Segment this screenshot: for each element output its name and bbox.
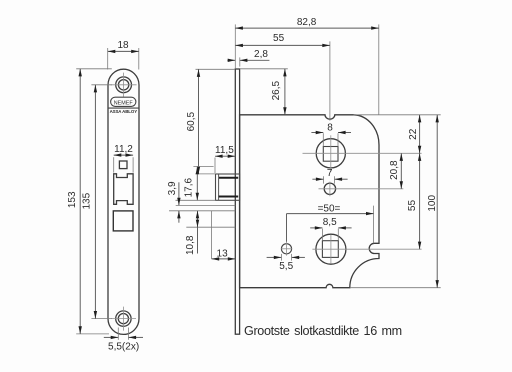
dim 3,9 (167, 181, 180, 223)
dim 5,5(2x) bottom (104, 328, 143, 353)
svg-text:3,9: 3,9 (167, 181, 178, 195)
svg-text:11,2: 11,2 (114, 144, 133, 155)
dim =50= (287, 204, 374, 244)
deadbolt slot side lines (169, 200, 235, 259)
small square hole (119, 161, 127, 169)
svg-text:8,5: 8,5 (323, 217, 337, 228)
svg-text:100: 100 (427, 195, 438, 212)
dim 10,8 (185, 211, 199, 255)
svg-text:60,5: 60,5 (186, 112, 197, 132)
svg-text:55: 55 (273, 33, 285, 44)
dim 82,8 (235, 17, 378, 115)
svg-text:55: 55 (407, 200, 418, 212)
svg-text:26,5: 26,5 (271, 81, 282, 101)
dim 26,5 (240, 69, 288, 115)
dim 135 left (81, 85, 112, 319)
svg-text:17,6: 17,6 (184, 178, 195, 198)
dim 17,6 (184, 167, 214, 201)
dim 20,8 (389, 153, 403, 189)
svg-text:22: 22 (408, 128, 419, 140)
latch side view (216, 174, 240, 200)
svg-text:Grootste slotkastdikte 16 mm: Grootste slotkastdikte 16 mm (244, 324, 402, 338)
svg-text:135: 135 (81, 192, 92, 209)
dim 7 (312, 168, 347, 184)
svg-text:5,5(2x): 5,5(2x) (108, 341, 139, 352)
dim 11,2 (114, 144, 134, 173)
latch cutout front view (114, 174, 133, 205)
dim 8,5 (310, 217, 351, 241)
svg-text:11,5: 11,5 (215, 145, 234, 156)
right side leaders (354, 114, 441, 116)
top screw hole (111, 73, 137, 97)
dim 8 (311, 122, 351, 146)
cylinder hole (312, 234, 421, 264)
dim 100 (427, 115, 439, 288)
NEMEF logo (108, 97, 139, 114)
svg-text:NEMEF: NEMEF (114, 100, 134, 106)
dim 2,8 (227, 49, 269, 67)
lock case outline (240, 115, 379, 288)
svg-text:82,8: 82,8 (297, 17, 317, 28)
svg-text:ASSA ABLOY: ASSA ABLOY (110, 109, 138, 114)
faceplate side strip (235, 69, 239, 334)
faceplate front view outline (108, 69, 139, 334)
svg-text:2,8: 2,8 (254, 49, 268, 60)
dim 18 top (108, 40, 139, 69)
svg-text:10,8: 10,8 (185, 235, 196, 255)
bottom screw hole (111, 307, 136, 331)
dim 22 (408, 115, 421, 154)
5,5 hole (281, 242, 292, 256)
dim 5,5 hole (267, 254, 305, 272)
svg-text:13: 13 (217, 248, 229, 259)
dim 55 right (407, 153, 421, 249)
svg-text:8: 8 (327, 122, 333, 133)
dim 153 left (67, 69, 112, 334)
svg-text:153: 153 (67, 191, 78, 208)
dim 11,5 (215, 145, 235, 173)
svg-text:5,5: 5,5 (279, 261, 293, 272)
follower square + circle (303, 135, 422, 171)
svg-text:20,8: 20,8 (389, 160, 400, 180)
7mm hole (319, 182, 404, 197)
dim 60,5 (186, 69, 234, 174)
dim 55 top (235, 33, 330, 121)
deadbolt square hole (113, 211, 133, 231)
svg-text:=50=: =50= (318, 204, 341, 215)
svg-text:7: 7 (327, 168, 333, 179)
dim 13 (212, 248, 236, 260)
svg-text:18: 18 (117, 40, 129, 51)
